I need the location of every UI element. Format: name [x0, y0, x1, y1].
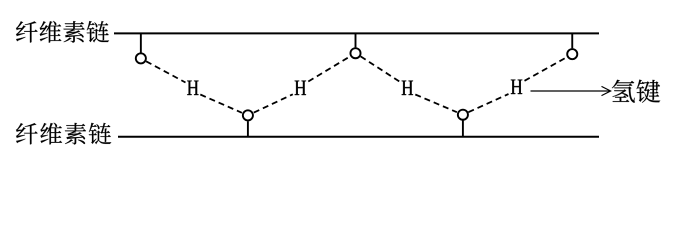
- wire top cellulose chain line: [114, 32, 599, 34]
- atom H3: [402, 81, 413, 95]
- wire stem O3: [571, 33, 573, 48]
- atom H4: [511, 80, 522, 94]
- dashed bond O4-H2: [254, 94, 293, 112]
- wire stem O4: [247, 121, 249, 137]
- label hydrogen-bond char 键: [637, 80, 661, 103]
- label bottom cellulose-chain char 维: [40, 123, 62, 145]
- label top cellulose-chain char 素: [63, 21, 84, 43]
- label top cellulose-chain char 纤: [16, 21, 38, 42]
- dashed bond O1-H1: [146, 61, 185, 82]
- dashed bond H2-O2: [308, 57, 350, 82]
- arrow shaft pointing to hydrogen bond label: [531, 90, 610, 92]
- label hydrogen-bond char 氢: [612, 80, 635, 103]
- dashed bond O5-H4: [468, 94, 508, 112]
- atom H1: [187, 81, 198, 95]
- node O4 oxygen circle bottom-left: [243, 110, 253, 120]
- dashed bond O2-H3: [361, 56, 401, 82]
- node O1 oxygen circle top-left: [136, 53, 146, 63]
- arrow head: [602, 86, 611, 95]
- label bottom cellulose-chain char 链: [89, 123, 111, 144]
- label top cellulose-chain char 链: [87, 21, 109, 42]
- wire stem O1: [140, 33, 142, 52]
- label bottom cellulose-chain char 素: [65, 123, 86, 145]
- dashed bond H3-O5: [415, 95, 457, 113]
- dashed bond H4-O3: [525, 57, 567, 81]
- atom H2: [295, 81, 306, 95]
- wire stem O2: [355, 33, 357, 47]
- wire stem O5: [462, 121, 464, 137]
- label top cellulose-chain char 维: [40, 21, 62, 43]
- label bottom cellulose-chain char 纤: [16, 123, 38, 144]
- wire bottom cellulose chain line: [118, 136, 599, 138]
- node O5 oxygen circle bottom-right: [458, 110, 468, 120]
- node O2 oxygen circle top-middle: [350, 48, 360, 58]
- dashed bond H1-O4: [200, 95, 242, 113]
- node O3 oxygen circle top-right: [567, 49, 577, 59]
